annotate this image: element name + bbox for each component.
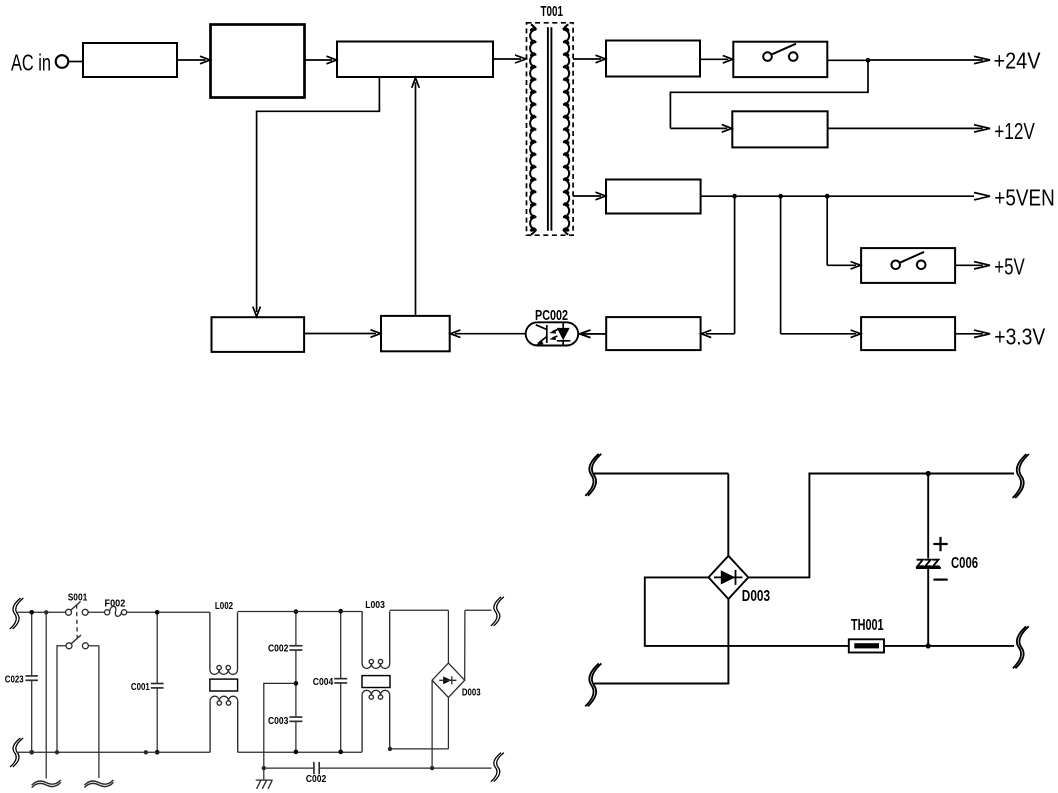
svg-text:C006: C006 [951,555,978,572]
svg-text:+5V: +5V [994,253,1025,279]
svg-text:+3.3V: +3.3V [994,323,1045,349]
svg-text:C023: C023 [5,674,24,685]
svg-text:D003: D003 [462,688,481,699]
svg-text:D003: D003 [742,588,770,605]
svg-text:L003: L003 [365,600,385,611]
svg-text:C004: C004 [313,677,334,688]
svg-text:C001: C001 [131,682,150,693]
svg-text:+12V: +12V [994,118,1035,144]
svg-text:T001: T001 [541,3,564,20]
svg-text:L002: L002 [215,601,234,612]
svg-text:C003: C003 [268,716,289,727]
svg-text:C002: C002 [306,774,327,785]
svg-text:S001: S001 [68,592,88,603]
svg-text:+24V: +24V [994,47,1041,73]
svg-text:TH001: TH001 [851,617,884,634]
svg-text:C002: C002 [268,643,289,654]
svg-text:+5VEN: +5VEN [994,185,1055,211]
svg-text:AC in: AC in [11,50,51,76]
